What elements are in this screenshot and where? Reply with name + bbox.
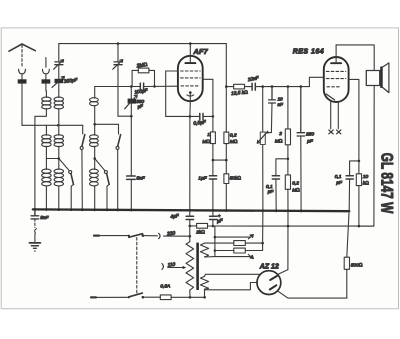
svg-text:0,2: 0,2 [230,132,237,138]
capacitor 100pF [140,83,143,90]
connector socket 1 [19,69,26,74]
resistor 0.2MOhm AVC [287,159,289,175]
switch S4 band B bottom [104,171,107,174]
svg-text:2kΩ: 2kΩ [195,230,205,236]
wire antenna to coils y=125.3 [22,124,83,126]
switch mains pole 2 [128,296,130,298]
wire RES164 plate [349,79,359,173]
mains line bottom [91,296,96,298]
speaker cone [383,63,389,93]
svg-text:1µF: 1µF [198,176,207,182]
arrow of potentiometer [257,131,268,143]
transformer heater secondary [200,276,208,297]
arrow of 250pF trimmer [54,60,64,70]
wire junction y=158.5 section A [46,158,58,160]
node bus junctions [34,208,303,212]
svg-text:250: 250 [305,132,314,138]
resistor 12.5kOhm plate load [226,86,233,88]
wire diagonal to switch B2 [95,159,105,171]
node top bus at AF7 grid [189,42,192,45]
wire heater to AZ12 top [205,274,261,276]
svg-text:pF: pF [306,139,314,145]
wire AZ12 to 500 ohm [278,291,347,298]
mains line 220 [94,235,99,237]
svg-text:kΩ: kΩ [363,180,369,186]
wire 580 line down to 5nF [130,116,132,175]
capacitor block 250pF [55,79,64,83]
wire heater arrow line 1 [215,236,250,238]
resistor 2kOhm filter [197,223,208,228]
switch mains pole 1 [128,235,130,237]
resistor R 2MOhm grid leak [138,68,149,73]
coil L3b section A bottom right [58,159,60,170]
wire break symbol [35,229,37,234]
coil L1a antenna primary [45,91,47,98]
transformer HT secondary [200,243,208,257]
wire top bus right corner down [225,44,227,133]
capacitor 5nF to ground [31,209,39,219]
capacitor 4uF filter 1 [186,216,194,219]
wire AVC column to AZ12 [287,211,289,269]
coil L2b section A middle right [58,125,60,135]
connector break 110 [162,264,163,270]
B+ filter line y=226 [190,225,374,227]
resistor 1MOhm [212,116,214,131]
wire corner to 580pF line [118,115,131,117]
AF7 internal grids dashed [181,70,201,72]
wire AF7 control-grid top line [166,71,178,116]
node top bus at tuning cap [117,42,120,45]
resistor 2MOhm AVC [287,87,289,129]
wire heater arrow line 2 [215,256,250,258]
wire AF7 cathode column down [189,101,192,211]
switch S1 band A [82,125,84,134]
wire AF7 screen to right [203,79,213,116]
capacitor 4uF filter 2 [210,216,218,219]
RES164 anode top bar [331,62,341,64]
coil L2a section A middle [45,125,47,135]
svg-text:0,1: 0,1 [266,184,273,190]
resistor 500 Ohm [347,209,349,257]
resistor 10kOhm [356,174,361,186]
tube RES164 envelope [324,57,349,102]
transformer primary winding [186,242,194,298]
tube AF7 envelope [178,56,203,101]
capacitor 5nF [127,176,136,179]
capacitor 1uF [209,176,216,179]
node detector junctions on y=86.6 [271,85,274,88]
svg-text:RES 164: RES 164 [293,49,325,56]
svg-text:MΩ: MΩ [292,188,300,194]
svg-text:5nF: 5nF [40,215,49,221]
AZ12 anode bars [270,276,277,290]
arrow of 580pF trimmer [125,95,138,109]
capacitor 0.5uF [200,113,203,119]
speaker transformer box [366,71,379,86]
coil L5 section B middle [94,124,96,135]
transformer core [196,243,199,290]
wire bottom line y=116.4 [166,115,213,117]
RES164 internals dashed [326,70,345,72]
coil L6 section B bottom [94,159,96,170]
wire cathode network junction y=160.1 [213,159,226,161]
ground symbol [29,242,40,244]
capacitor 10nF coupling [252,83,255,90]
svg-text:500Ω: 500Ω [351,262,363,268]
svg-text:1: 1 [207,132,210,138]
node junction (58.2,125.3) [57,124,60,127]
wire pot column below bus [262,211,264,243]
switch S3 band B [118,124,120,134]
svg-text:50kΩ: 50kΩ [230,176,242,182]
wire antenna column [21,84,23,126]
wire 110 tap with arrow [168,267,184,269]
svg-text:AZ 12: AZ 12 [259,264,279,271]
connector break 220 [159,233,160,238]
svg-text:MΩ: MΩ [202,139,210,145]
capacitor 10nF detector [269,87,276,103]
wire antenna lead-in dashed [21,45,23,67]
capacitor 0.1uF output [350,161,359,175]
svg-text:MΩ: MΩ [230,139,238,145]
heater divider column [214,226,216,257]
capacitor 0.1uF AVC [272,176,279,179]
svg-text:AF7: AF7 [192,47,208,56]
antenna [9,44,35,51]
RES164 heater stubs with x marks [331,101,339,128]
svg-text:GL 8147 W: GL 8147 W [378,153,396,214]
switch link dashed [136,238,138,296]
wire heater to AZ12 left [205,283,258,290]
speaker magnet bar [380,67,383,88]
variable capacitor tuning C2 plates [114,62,122,65]
AF7 grid cap lead [189,44,191,63]
wire AF7 grid line y=86.5 [95,85,178,87]
tube AZ12 envelope [257,271,281,295]
svg-text:5nF: 5nF [136,176,145,182]
wire 220 node to primary [189,226,191,242]
wire AZ12 to B+ column [278,270,288,275]
coil L1b antenna secondary [58,91,60,98]
svg-text:0,2: 0,2 [292,181,299,187]
AF7 cathode [189,91,192,94]
variable capacitor C 250pF top plates [55,62,63,65]
wire diagonal to switch A2 [59,159,70,171]
svg-text:0,5A: 0,5A [160,284,170,290]
coil L4 RF grid coil [94,87,96,99]
arrow of tuning cap C2 [113,60,123,70]
wire RES164 grid [309,77,323,86]
trimmer 580pF block [130,87,132,117]
resistor heater dropping 1 [215,242,234,244]
svg-text:10: 10 [278,96,284,101]
wire RES164 top to speaker [336,45,374,71]
svg-text:10: 10 [363,174,369,180]
ground bus (chassis) [33,209,350,211]
capacitor block lead2 [42,79,51,83]
fuse 0.5A [160,295,171,300]
arrow through 250pF block [52,76,64,87]
svg-text:MΩ: MΩ [275,139,283,145]
switch S2 band A bottom [69,171,72,174]
capacitor 250pF [297,87,305,136]
svg-text:0,1: 0,1 [335,174,342,180]
wire y=124.3 section B [95,123,119,125]
coil L3a section A bottom [45,159,47,170]
wire speaker to B+ line [359,86,374,227]
RES164 filament diagonal [326,94,334,100]
potentiometer volume [261,85,264,88]
resistor 0.2MOhm screen [224,132,229,144]
resistor 50kOhm cathode [224,174,229,184]
svg-text:2: 2 [278,131,282,137]
top bus wire y=43.6 [59,43,227,45]
resistor heater dropping 2 [215,250,234,252]
connector socket 2 [43,58,50,80]
node AVC junction [287,158,290,161]
capacitor block antenna [18,79,27,83]
